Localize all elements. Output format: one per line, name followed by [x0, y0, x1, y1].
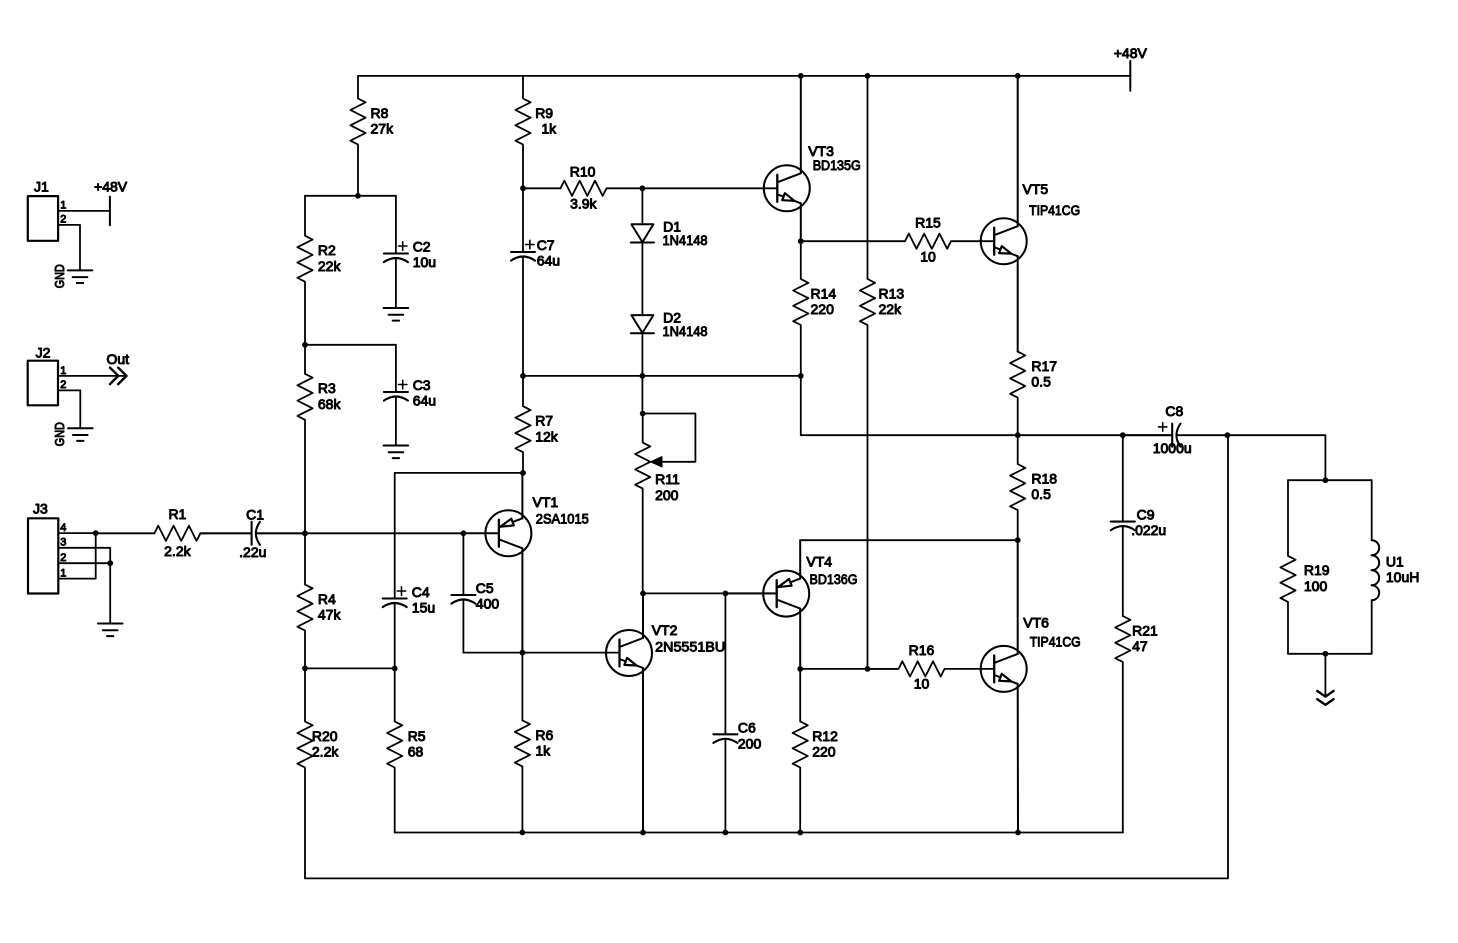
- svg-text:1: 1: [60, 199, 66, 211]
- svg-text:+48V: +48V: [1114, 45, 1148, 61]
- svg-text:2: 2: [60, 379, 66, 391]
- svg-text:R19: R19: [1304, 562, 1330, 578]
- svg-text:R2: R2: [318, 242, 336, 258]
- svg-text:R20: R20: [312, 728, 338, 744]
- svg-text:C1: C1: [246, 507, 264, 523]
- svg-text:1k: 1k: [541, 121, 557, 137]
- svg-text:2SA1015: 2SA1015: [536, 510, 589, 526]
- svg-text:VT2: VT2: [652, 622, 678, 638]
- svg-text:R18: R18: [1031, 470, 1057, 486]
- svg-text:VT6: VT6: [1023, 614, 1049, 630]
- svg-text:2: 2: [60, 552, 66, 564]
- svg-text:220: 220: [811, 301, 835, 317]
- svg-text:R21: R21: [1132, 622, 1158, 638]
- svg-text:BD136G: BD136G: [810, 571, 858, 587]
- svg-text:27k: 27k: [371, 121, 395, 137]
- svg-text:2.2k: 2.2k: [164, 543, 191, 559]
- svg-text:C8: C8: [1165, 403, 1183, 419]
- svg-text:R11: R11: [655, 471, 680, 487]
- svg-text:R4: R4: [318, 591, 336, 607]
- svg-text:2N5551BU: 2N5551BU: [655, 638, 725, 654]
- svg-text:1N4148: 1N4148: [663, 323, 708, 339]
- svg-text:2: 2: [60, 213, 66, 225]
- svg-text:1k: 1k: [535, 743, 551, 759]
- svg-text:10u: 10u: [413, 254, 436, 270]
- svg-text:10uH: 10uH: [1386, 569, 1419, 585]
- svg-text:12k: 12k: [535, 428, 559, 444]
- svg-text:22k: 22k: [318, 258, 342, 274]
- svg-text:C4: C4: [412, 584, 430, 600]
- svg-text:22k: 22k: [879, 301, 903, 317]
- svg-text:VT4: VT4: [806, 554, 832, 570]
- svg-text:64u: 64u: [537, 252, 560, 268]
- svg-text:TIP41CG: TIP41CG: [1030, 634, 1081, 650]
- svg-text:R16: R16: [909, 642, 935, 658]
- svg-text:68k: 68k: [318, 396, 342, 412]
- svg-text:10: 10: [920, 249, 936, 265]
- svg-text:+48V: +48V: [94, 179, 128, 195]
- svg-text:1: 1: [60, 365, 66, 377]
- svg-text:47k: 47k: [318, 607, 342, 623]
- svg-text:C5: C5: [476, 580, 494, 596]
- svg-text:R10: R10: [570, 163, 596, 179]
- svg-text:BD135G: BD135G: [813, 157, 861, 173]
- svg-text:J1: J1: [34, 179, 49, 195]
- svg-text:220: 220: [812, 744, 836, 760]
- svg-text:64u: 64u: [413, 392, 436, 408]
- svg-text:R14: R14: [811, 285, 837, 301]
- svg-text:R12: R12: [812, 728, 838, 744]
- svg-text:Out: Out: [107, 351, 130, 367]
- svg-text:R17: R17: [1031, 358, 1057, 374]
- svg-text:C7: C7: [537, 237, 555, 253]
- svg-text:R5: R5: [408, 728, 426, 744]
- svg-text:3.9k: 3.9k: [570, 196, 597, 212]
- svg-text:J2: J2: [36, 345, 51, 361]
- svg-text:R13: R13: [879, 285, 905, 301]
- svg-text:R3: R3: [318, 380, 336, 396]
- svg-text:10: 10: [914, 676, 930, 692]
- svg-text:1N4148: 1N4148: [663, 232, 708, 248]
- svg-text:100: 100: [1304, 578, 1328, 594]
- svg-text:47: 47: [1132, 638, 1148, 654]
- svg-text:R1: R1: [168, 506, 186, 522]
- svg-text:U1: U1: [1386, 554, 1404, 570]
- svg-text:VT5: VT5: [1023, 181, 1049, 197]
- svg-text:R9: R9: [535, 105, 553, 121]
- svg-text:R8: R8: [371, 105, 389, 121]
- svg-text:C6: C6: [738, 719, 756, 735]
- svg-text:0.5: 0.5: [1031, 486, 1051, 502]
- svg-text:4: 4: [60, 522, 66, 534]
- svg-text:1: 1: [60, 567, 66, 579]
- svg-text:2.2k: 2.2k: [312, 744, 339, 760]
- svg-text:.022u: .022u: [1131, 522, 1166, 538]
- svg-text:200: 200: [655, 487, 679, 503]
- svg-text:1000u: 1000u: [1153, 440, 1192, 456]
- svg-text:3: 3: [60, 537, 66, 549]
- svg-text:R6: R6: [535, 727, 553, 743]
- svg-text:J3: J3: [33, 500, 48, 516]
- svg-text:GND: GND: [52, 422, 67, 446]
- svg-text:200: 200: [738, 736, 762, 752]
- svg-text:GND: GND: [52, 264, 67, 288]
- svg-text:15u: 15u: [412, 599, 435, 615]
- svg-text:C9: C9: [1137, 507, 1155, 523]
- svg-text:400: 400: [476, 595, 500, 611]
- svg-text:R7: R7: [535, 413, 553, 429]
- svg-text:C3: C3: [413, 377, 431, 393]
- svg-text:68: 68: [408, 744, 424, 760]
- svg-text:0.5: 0.5: [1031, 374, 1051, 390]
- svg-text:TIP41CG: TIP41CG: [1029, 202, 1080, 218]
- svg-text:C2: C2: [413, 239, 431, 255]
- svg-text:VT1: VT1: [533, 494, 559, 510]
- svg-text:R15: R15: [915, 215, 941, 231]
- svg-text:.22u: .22u: [239, 544, 266, 560]
